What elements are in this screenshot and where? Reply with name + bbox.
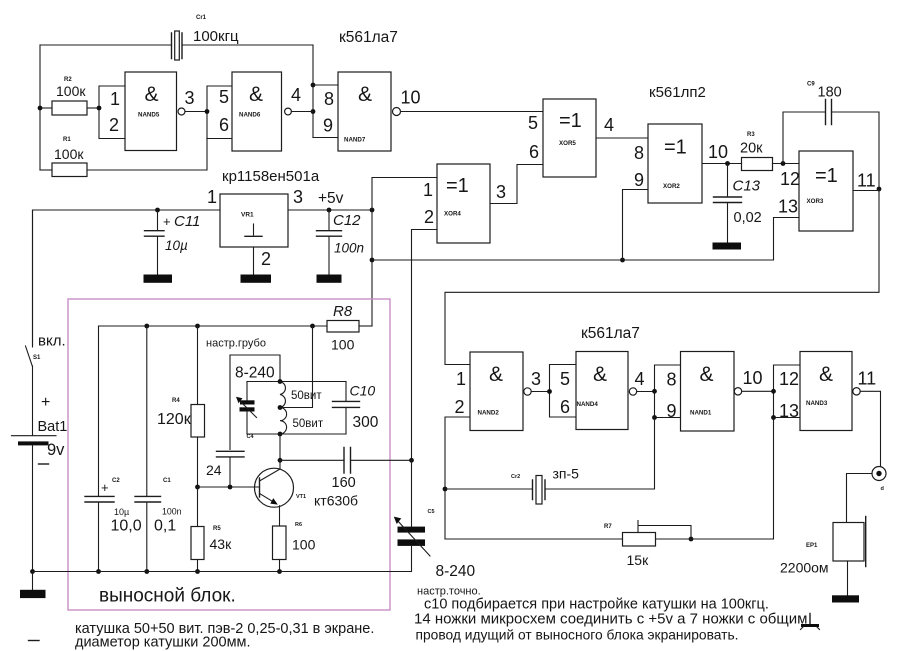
svg-text:C2: C2 (112, 478, 120, 484)
svg-text:4: 4 (291, 85, 301, 105)
wire battery to ground (32, 572, 34, 591)
wire R1 left (40, 169, 52, 171)
svg-text:R3: R3 (747, 132, 755, 138)
node XOR2 pin9 rail junction (620, 258, 625, 263)
svg-text:NAND5: NAND5 (138, 112, 160, 119)
wire collector up to tank (279, 434, 281, 469)
svg-text:Cr1: Cr1 (196, 15, 207, 21)
node C12 junction (327, 208, 332, 213)
svg-text:9: 9 (634, 170, 644, 190)
svg-text:2: 2 (455, 397, 465, 417)
wire XOR3 out (853, 190, 879, 192)
svg-text:C4: C4 (247, 434, 255, 440)
wire R2 left (40, 107, 52, 109)
node rail R4 (195, 324, 200, 329)
svg-text:12: 12 (779, 369, 799, 389)
gate NAND3 (771, 352, 876, 431)
svg-text:1: 1 (456, 369, 466, 389)
svg-text:2200ом: 2200ом (780, 560, 829, 576)
svg-text:2: 2 (261, 249, 271, 269)
svg-text:9: 9 (667, 401, 677, 421)
svg-text:100: 100 (292, 537, 316, 553)
svg-text:12: 12 (780, 169, 800, 189)
svg-text:C10: C10 (350, 383, 376, 399)
svg-text:к561ла7: к561ла7 (581, 325, 640, 342)
svg-text:VR1: VR1 (241, 212, 254, 219)
svg-text:180: 180 (818, 85, 842, 101)
svg-text:S1: S1 (33, 355, 41, 361)
wire NAND2 out (531, 391, 549, 393)
capacitor C12 (317, 210, 365, 275)
voltage regulator VR1 (207, 187, 303, 269)
svg-text:6: 6 (529, 142, 539, 162)
wire +5v down to R8 row (371, 210, 373, 326)
wire NAND1 out (742, 390, 774, 392)
resistor R8 (327, 303, 359, 353)
svg-text:C11: C11 (174, 213, 200, 230)
wire R3 to XOR3 pin12 (773, 163, 800, 165)
svg-text:&: & (358, 83, 372, 106)
svg-text:к561лп2: к561лп2 (649, 84, 706, 101)
wire NAND2 pin2 down (445, 417, 470, 539)
svg-text:XOR5: XOR5 (559, 140, 576, 147)
node C11 junction (155, 208, 160, 213)
wire crystal to NAND7 input rail (182, 44, 313, 46)
svg-text:2: 2 (109, 115, 119, 135)
node rail coil tap (310, 324, 315, 329)
node R7 wiper junction (689, 537, 694, 542)
crystal Cr1 (172, 15, 240, 60)
inductor L coil 50+50 (280, 382, 324, 434)
svg-text:кт630б: кт630б (314, 493, 358, 509)
svg-text:8: 8 (667, 370, 677, 390)
wire 8-240 loop (230, 355, 280, 450)
svg-text:6: 6 (560, 397, 570, 417)
node R5 bottom (195, 569, 200, 574)
capacitor 160 (280, 448, 412, 492)
ground C13 (713, 243, 742, 250)
wire XOR2 pin9 down to rail (623, 190, 649, 261)
node R3 C9 junction (781, 161, 786, 166)
svg-text:6: 6 (219, 115, 229, 135)
node C2 bottom (96, 569, 101, 574)
svg-text:1: 1 (207, 187, 217, 207)
svg-text:120к: 120к (157, 411, 192, 428)
svg-text:кр1158ен501а: кр1158ен501а (222, 168, 320, 185)
svg-text:15к: 15к (627, 552, 650, 568)
node +5v corner junction (370, 208, 375, 213)
wire tank top rail (247, 381, 346, 383)
svg-text:NAND1: NAND1 (690, 410, 712, 417)
svg-text:NAND4: NAND4 (577, 401, 599, 408)
svg-text:20к: 20к (740, 141, 763, 157)
svg-text:13: 13 (778, 197, 798, 217)
svg-text:NAND3: NAND3 (806, 400, 828, 407)
svg-text:+5v: +5v (318, 190, 344, 207)
capacitor C5 trimmer (394, 460, 481, 597)
wire block top rail (99, 325, 328, 327)
node C13 junction (725, 161, 730, 166)
svg-text:настр.грубо: настр.грубо (206, 338, 266, 350)
svg-text:R4: R4 (172, 398, 180, 404)
node coil bottom (278, 432, 283, 437)
wire R8 to +5v rail (359, 325, 372, 327)
svg-text:5: 5 (528, 113, 538, 133)
svg-text:Cr2: Cr2 (511, 474, 520, 480)
svg-text:4: 4 (635, 369, 645, 389)
svg-text:10µ: 10µ (165, 238, 188, 253)
wire VR1 pin2 to ground (253, 247, 255, 275)
svg-text:=1: =1 (446, 175, 469, 197)
ground chassis symbol (801, 614, 820, 630)
wire NAND7 out to XOR5 pin5 (401, 111, 543, 113)
wire NAND6 out (291, 111, 313, 113)
node junction NAND7 input (311, 109, 316, 114)
wire NAND4 out (637, 391, 655, 393)
resistor R3 (740, 132, 773, 171)
wire EP1 to ground (847, 561, 849, 596)
node base R4 junction (195, 485, 200, 490)
gate XOR4 (423, 164, 506, 243)
svg-text:100к: 100к (56, 83, 86, 99)
node R6 bottom (277, 569, 282, 574)
wire R7 row (445, 538, 623, 540)
gate XOR2 (634, 124, 728, 203)
svg-text:вкл.: вкл. (38, 333, 66, 350)
transistor VT1 (198, 468, 359, 526)
svg-text:&: & (145, 83, 159, 106)
resistor R1 (52, 137, 87, 177)
wire NAND3 out to jack (860, 391, 880, 466)
ground VR1 (241, 275, 272, 283)
svg-text:10: 10 (743, 368, 763, 388)
svg-text:50вит: 50вит (293, 418, 324, 430)
capacitor C4 trimmer (236, 382, 257, 441)
svg-text:NAND2: NAND2 (478, 410, 500, 417)
wire tank bottom rail (247, 433, 346, 435)
node C1 bottom (144, 569, 149, 574)
svg-text:+: + (163, 214, 171, 229)
svg-text:100кгц: 100кгц (193, 28, 239, 45)
wire block bottom rail (33, 571, 412, 573)
minus mark bottom left (29, 640, 40, 642)
svg-text:13: 13 (779, 401, 799, 421)
svg-text:к561ла7: к561ла7 (339, 29, 398, 46)
svg-text:160: 160 (332, 475, 356, 491)
earphone EP1 (780, 517, 866, 576)
node rail C1 (144, 324, 149, 329)
gate NAND2 (455, 352, 542, 431)
wire XOR2 out (702, 163, 742, 165)
svg-text:&: & (700, 363, 714, 386)
svg-text:43к: 43к (210, 536, 233, 552)
wire top to crystal (40, 44, 172, 46)
capacitor C13 (714, 164, 762, 244)
svg-text:8: 8 (634, 143, 644, 163)
svg-text:11: 11 (858, 369, 877, 389)
node C5 junction (409, 458, 414, 463)
node coil center tap (278, 405, 283, 410)
capacitor C1 (135, 326, 182, 572)
op-amp U1 NAND5 gate (97, 72, 195, 151)
svg-text:9v: 9v (47, 441, 65, 459)
node battery ground junction (30, 569, 35, 574)
wire coil tap up to rail (280, 326, 313, 408)
svg-text:Bat1: Bat1 (38, 419, 68, 435)
wire R2 to NAND5 (87, 107, 99, 109)
svg-text:5: 5 (560, 369, 570, 389)
capacitor 24 (206, 451, 244, 487)
wire +5v rail (288, 209, 372, 211)
svg-text:&: & (819, 363, 833, 386)
svg-text:NAND6: NAND6 (239, 112, 261, 119)
resistor R7 trimmer (604, 521, 691, 569)
svg-text:+: + (101, 480, 109, 495)
capacitor C9 loop (783, 82, 879, 190)
svg-text:10: 10 (401, 88, 421, 108)
ground EP1 (832, 595, 859, 602)
svg-text:VT1: VT1 (296, 494, 306, 500)
svg-text:3: 3 (185, 88, 195, 108)
svg-text:100n: 100n (162, 507, 182, 517)
svg-text:C12: C12 (333, 212, 361, 229)
resistor R2 (52, 77, 87, 115)
wire R7 to NAND3 pin13 (656, 418, 774, 540)
gate XOR5 (528, 99, 614, 177)
crystal Cr2 (445, 418, 655, 505)
ground battery (20, 590, 46, 598)
svg-text:8: 8 (324, 89, 334, 109)
svg-text:=1: =1 (815, 165, 838, 187)
svg-text:C1: C1 (163, 478, 171, 484)
gate NAND4 (547, 352, 644, 430)
svg-text:d: d (881, 486, 884, 492)
svg-text:R5: R5 (213, 526, 221, 532)
capacitor C11 (145, 210, 201, 275)
node collector 160 junction (278, 458, 283, 463)
svg-text:&: & (489, 363, 503, 386)
gate NAND7 (313, 72, 421, 151)
wire battery positive rail (33, 210, 221, 347)
svg-text:диаметор катушки 200мм.: диаметор катушки 200мм. (75, 635, 251, 651)
svg-text:0,02: 0,02 (734, 210, 762, 226)
capacitor C10 (333, 382, 379, 435)
svg-text:XOR3: XOR3 (807, 198, 824, 205)
svg-text:24: 24 (206, 462, 222, 478)
svg-text:3: 3 (496, 182, 506, 202)
svg-text:&: & (593, 363, 607, 386)
resistor R5 (191, 487, 232, 572)
resistor R4 (157, 326, 205, 487)
svg-text:10: 10 (708, 142, 728, 162)
svg-text:8-240: 8-240 (235, 365, 275, 382)
svg-text:EP1: EP1 (806, 543, 818, 549)
svg-text:1: 1 (423, 180, 433, 200)
wire rail up to XOR3 pin13 (774, 218, 800, 261)
node XOR3 out junction (877, 187, 882, 192)
svg-text:+: + (41, 394, 50, 411)
gate NAND1 (652, 352, 762, 432)
svg-text:C9: C9 (807, 82, 815, 88)
node Cr2 junction (443, 487, 448, 492)
node coil top (278, 379, 283, 384)
resistor R6 (273, 522, 316, 572)
svg-text:14 ножки микросхем соединить с: 14 ножки микросхем соединить с +5v а 7 н… (414, 611, 807, 628)
svg-text:50вит: 50вит (291, 390, 322, 402)
svg-text:1: 1 (110, 89, 120, 109)
ground C11 (144, 275, 173, 283)
battery Bat1 (12, 366, 68, 572)
svg-text:11: 11 (857, 171, 876, 191)
wire XOR5 out to XOR2 pin8 (596, 137, 648, 139)
wire XOR4 pin1 to +5v rail (372, 178, 437, 211)
switch S1 (26, 210, 66, 366)
svg-text:9: 9 (323, 116, 333, 136)
svg-text:NAND7: NAND7 (344, 137, 366, 144)
connector jack d (872, 467, 886, 493)
svg-text:5: 5 (219, 87, 229, 107)
svg-text:&: & (249, 83, 263, 106)
node R2 rail (38, 106, 43, 111)
svg-text:C13: C13 (733, 178, 761, 195)
capacitor C2 (85, 326, 142, 572)
svg-text:10µ: 10µ (114, 507, 129, 517)
svg-text:100n: 100n (334, 241, 364, 256)
svg-text:=1: =1 (664, 137, 687, 159)
svg-text:3: 3 (293, 187, 303, 207)
wire feedback to NAND2 pin1 (445, 189, 879, 365)
svg-text:10,0: 10,0 (111, 518, 142, 535)
svg-text:R1: R1 (63, 137, 71, 143)
wire XOR4 pin2 down long (412, 230, 438, 461)
gate XOR3 (778, 151, 876, 231)
svg-text:100: 100 (331, 337, 355, 353)
gate NAND6 (205, 72, 301, 151)
svg-text:выносной блок.: выносной блок. (99, 586, 236, 607)
svg-text:провод идущий от выносного бло: провод идущий от выносного блока экранир… (416, 628, 739, 643)
node junction NAND7 pin8 (311, 83, 316, 88)
svg-text:=1: =1 (559, 110, 582, 132)
svg-text:R8: R8 (333, 303, 353, 320)
ground C12 (317, 275, 342, 283)
svg-text:R6: R6 (295, 522, 302, 528)
wire left rail oscillator (39, 45, 41, 170)
remote block pink border (68, 299, 390, 610)
svg-text:0,1: 0,1 (154, 518, 176, 535)
node rail y260 junction (370, 258, 375, 263)
svg-text:C5: C5 (428, 509, 435, 515)
svg-text:3: 3 (531, 369, 541, 389)
wire vertical into NAND7 bracket (312, 45, 314, 138)
svg-text:R7: R7 (604, 524, 612, 530)
svg-text:4: 4 (604, 115, 614, 135)
wire horizontal rail y260 (372, 259, 774, 261)
wire R1 to NAND6 bracket (87, 138, 207, 171)
wire NAND5 out to NAND6 (185, 111, 207, 113)
svg-text:2: 2 (424, 207, 434, 227)
svg-text:XOR2: XOR2 (663, 183, 680, 190)
svg-text:100к: 100к (54, 146, 84, 162)
svg-text:XOR4: XOR4 (444, 211, 461, 218)
wire jack to EP1 (847, 474, 873, 523)
node base 24 junction (228, 485, 233, 490)
svg-text:зп-5: зп-5 (553, 466, 580, 482)
wire XOR4 out to XOR5 pin6 (490, 165, 543, 204)
svg-text:8-240: 8-240 (436, 563, 476, 580)
svg-text:300: 300 (353, 414, 379, 431)
